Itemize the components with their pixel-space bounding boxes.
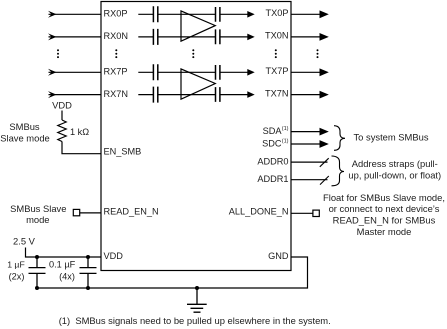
input arrowhead RX7P (48, 69, 57, 76)
input arrowhead RX0N (48, 33, 57, 40)
strap slash ADDR1 (320, 176, 329, 185)
brace (address straps group) (332, 156, 345, 186)
svg-text:TX0P: TX0P (266, 8, 289, 18)
resistor R1 1 kOhm (58, 120, 66, 142)
svg-text:(2x): (2x) (9, 272, 25, 282)
svg-text:Master mode: Master mode (357, 226, 412, 237)
output arrowhead TX7P (320, 68, 329, 76)
capacitor C1 1uF (29, 257, 46, 288)
internal arrowhead TX7P (247, 69, 254, 76)
svg-text:SDC: SDC (262, 139, 282, 149)
wire ALL_DONE_N (291, 212, 313, 214)
capacitor C-RX7N (153, 87, 157, 103)
internal wire RX7N to TX7N (138, 94, 248, 96)
wire VDD to resistor (61, 111, 63, 121)
svg-text:GND: GND (268, 251, 289, 261)
svg-text:Address straps (pull-: Address straps (pull- (352, 158, 438, 169)
output arrowhead TX7N (320, 91, 329, 99)
svg-text:READ_EN_N: READ_EN_N (104, 206, 159, 216)
output wire TX7P (291, 71, 321, 73)
ellipsis dots (inside right) (275, 49, 277, 58)
svg-text:VDD: VDD (52, 99, 72, 110)
wire resistor to EN_SMB pin (62, 142, 101, 154)
svg-text:SDA: SDA (263, 126, 283, 136)
svg-text:Float for SMBus Slave mode,: Float for SMBus Slave mode, (323, 192, 445, 203)
output wire TX0N (291, 36, 321, 38)
ground symbol (187, 288, 207, 312)
ellipsis dots (inside middle) (192, 49, 194, 58)
svg-text:2.5 V: 2.5 V (13, 236, 36, 247)
wire GND pin to ground rail (37, 257, 308, 288)
output arrowhead TX0N (320, 33, 329, 41)
junction (C2 bottom) (86, 286, 90, 290)
internal wire RX0P to TX0P (138, 13, 248, 15)
svg-text:RX7P: RX7P (104, 67, 128, 77)
svg-text:TX7N: TX7N (265, 88, 289, 98)
wire 2.5V to VDD pin (26, 248, 102, 258)
internal wire RX0N to TX0N (138, 36, 248, 38)
svg-text:ALL_DONE_N: ALL_DONE_N (229, 206, 289, 216)
svg-text:ADDR0: ADDR0 (257, 156, 288, 166)
internal arrowhead TX7N (247, 91, 254, 98)
svg-text:SMBus: SMBus (9, 121, 40, 132)
svg-text:RX7N: RX7N (104, 89, 129, 99)
output arrowhead TX0P (320, 10, 329, 18)
input wire RX7P (49, 71, 102, 73)
svg-text:Slave mode: Slave mode (0, 132, 50, 143)
brace (SMBus group) (334, 126, 345, 151)
input arrowhead RX7N (48, 91, 57, 98)
svg-text:(1): (1) (282, 138, 289, 144)
amplifier A0 (channel 0 redriver) (181, 11, 215, 41)
terminal square (ALL_DONE_N) (313, 210, 319, 216)
arrowhead SDA (320, 128, 329, 136)
svg-text:or connect to next device’s: or connect to next device’s (329, 203, 440, 214)
internal wire RX7P to TX7P (138, 71, 248, 73)
internal arrowhead TX0P (247, 11, 254, 18)
svg-text:TX7P: TX7P (266, 66, 289, 76)
wire terminal to READ_EN_N pin (80, 212, 101, 214)
input wire RX7N (49, 94, 102, 96)
svg-text:up, pull-down, or float): up, pull-down, or float) (348, 169, 441, 180)
capacitor C2 0.1uF (80, 257, 97, 288)
svg-text:To system SMBus: To system SMBus (354, 132, 429, 143)
wire SDA (291, 131, 321, 133)
wire ADDR0 (291, 161, 328, 163)
capacitor C-TX7N (216, 87, 220, 102)
amplifier A7 (channel 7 redriver) (181, 69, 215, 99)
capacitor C-TX7P (216, 65, 220, 80)
svg-text:mode: mode (26, 214, 49, 225)
wire SDC (291, 143, 321, 145)
strap slash ADDR0 (320, 158, 329, 167)
ellipsis dots (inside left) (115, 49, 117, 58)
input wire RX0N (49, 36, 102, 38)
svg-text:1 kΩ: 1 kΩ (70, 127, 89, 137)
svg-text:READ_EN_N for SMBus: READ_EN_N for SMBus (333, 215, 436, 226)
svg-text:TX0N: TX0N (265, 31, 289, 41)
junction (C1 bottom) (35, 286, 39, 290)
svg-text:RX0N: RX0N (104, 31, 129, 41)
capacitor C-TX0N (216, 29, 220, 44)
internal arrowhead TX0N (247, 34, 254, 41)
output wire TX7N (291, 94, 321, 96)
svg-text:EN_SMB: EN_SMB (104, 147, 142, 157)
svg-text:(1): (1) (282, 126, 289, 132)
wire ADDR1 (291, 179, 328, 181)
svg-text:(1) SMBus signals need to be: (1) SMBus signals need to be pulled up e… (59, 315, 331, 326)
capacitor C-RX0P (input AC coupling) (153, 6, 157, 22)
svg-text:0.1 µF: 0.1 µF (49, 260, 76, 270)
ellipsis dots (right outside) (317, 49, 319, 58)
junction (ground stem) (195, 286, 199, 290)
ellipsis dots (left outside) (57, 49, 59, 58)
svg-text:RX0P: RX0P (104, 9, 128, 19)
capacitor C-RX0N (153, 29, 157, 45)
svg-text:VDD: VDD (104, 251, 124, 261)
input wire RX0P (49, 13, 102, 15)
chip box U1 (101, 2, 291, 271)
junction (C2 top) (86, 255, 90, 259)
svg-text:SMBus Slave: SMBus Slave (10, 203, 66, 214)
junction (C1 top) (35, 255, 39, 259)
capacitor C-TX0P (output AC coupling) (216, 7, 220, 22)
output wire TX0P (291, 13, 321, 15)
arrowhead SDC (320, 140, 329, 148)
svg-text:ADDR1: ADDR1 (257, 174, 288, 184)
input arrowhead RX0P (48, 11, 57, 18)
svg-text:(4x): (4x) (59, 272, 75, 282)
terminal square (READ_EN_N) (73, 209, 79, 215)
svg-text:1 µF: 1 µF (7, 260, 25, 270)
capacitor C-RX7P (153, 64, 157, 80)
